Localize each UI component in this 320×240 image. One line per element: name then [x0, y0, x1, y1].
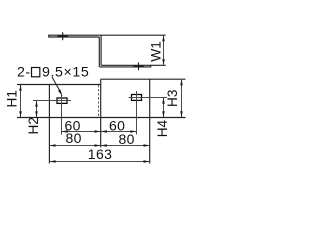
svg-text:H4: H4: [155, 119, 170, 137]
plan view: left edge + 163 extension: [48, 85, 50, 164]
svg-text:H3: H3: [165, 90, 180, 107]
svg-text:H2: H2: [26, 117, 41, 134]
side view: top flange bottom surface: [49, 36, 100, 38]
W1 dimension line: [163, 36, 165, 65]
side view: top flange top surface + W1 top extension: [49, 35, 166, 68]
60 right dimension: [101, 131, 137, 133]
center mark on top flange (side view): [58, 32, 144, 70]
80 right dimension: [101, 145, 150, 147]
W1 arrows: [162, 35, 165, 65]
center mark on bottom flange (side view): [138, 62, 140, 70]
right hole horizontal centerline + H4 extension: [129, 97, 168, 99]
hidden bend line (dashed): [98, 85, 100, 118]
leader arrowhead: [58, 90, 63, 97]
right hole: [132, 95, 142, 101]
H1 dimension: [20, 85, 22, 117]
163 dimension: [49, 161, 149, 163]
svg-text:H1: H1: [4, 90, 19, 107]
side view: bottom flange bottom surface: [99, 66, 150, 68]
left hole horizontal centerline + H2 extension: [33, 100, 71, 102]
plan view: top edge of right rect + H3 extension: [101, 78, 186, 80]
svg-text:W1: W1: [149, 41, 164, 62]
H2 dimension: [36, 101, 38, 117]
side view: web left surface: [98, 37, 100, 67]
side view: bottom flange top surface + W1 bottom extension: [101, 64, 166, 66]
leader line to left hole: [52, 77, 61, 93]
plan view: middle bend line + 60/80 extension: [100, 79, 102, 147]
svg-text:80: 80: [119, 131, 135, 147]
plan view: top edge of left (upper flange) rect + H1 extension: [17, 79, 186, 163]
left hole vertical centerline + 60 extension: [61, 95, 63, 135]
plan view: bottom edge + both extensions: [17, 117, 186, 119]
svg-text:9.5×15: 9.5×15: [42, 65, 89, 81]
80 left dimension: [49, 145, 100, 147]
svg-text:2-: 2-: [17, 65, 31, 81]
H3 dimension: [181, 80, 183, 117]
plan view: right edge + 163 extension: [149, 79, 151, 163]
svg-text:163: 163: [88, 146, 113, 162]
H4 dimension: [163, 98, 165, 117]
side view: web right surface: [100, 35, 102, 65]
right hole vertical centerline + 60 extension: [136, 91, 138, 135]
left hole: [57, 98, 67, 103]
60 left dimension: [62, 131, 101, 133]
svg-text:80: 80: [66, 130, 82, 146]
side view: bottom flange right end cap: [150, 65, 152, 68]
side view: flange left end cap: [48, 35, 50, 38]
